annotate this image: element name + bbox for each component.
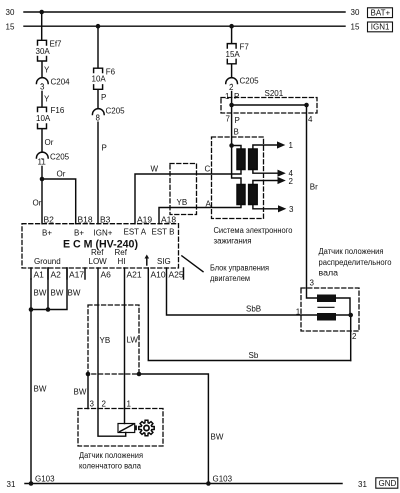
callout leader to ECM <box>182 256 203 272</box>
crank pickup coil <box>118 424 135 433</box>
svg-text:F16: F16 <box>51 106 65 115</box>
wire to spark output 1 <box>253 145 277 149</box>
svg-text:P: P <box>102 144 107 153</box>
junction on rail 15 at F7 feed <box>229 24 234 29</box>
cam sensor top element <box>317 295 336 303</box>
svg-text:BW: BW <box>34 289 47 298</box>
wire EST B / YB / A from A18 <box>159 205 241 224</box>
connector C205 pin8 <box>92 109 104 115</box>
svg-text:A6: A6 <box>101 270 112 280</box>
svg-text:Датчик положения: Датчик положения <box>319 247 384 256</box>
connector C205 pin11 <box>36 152 48 158</box>
svg-text:31: 31 <box>358 480 367 489</box>
wire IGN feed down from rail15 <box>97 26 99 68</box>
svg-text:G103: G103 <box>213 475 233 484</box>
svg-text:P: P <box>234 92 239 101</box>
svg-text:Ef7: Ef7 <box>50 40 63 49</box>
coil1 secondary bar <box>249 149 258 170</box>
terminal box BAT+ <box>368 8 393 18</box>
svg-text:2: 2 <box>102 400 107 409</box>
junction S201 pin 4 <box>304 103 309 108</box>
svg-text:W: W <box>151 165 159 174</box>
rail 30 <box>24 11 345 13</box>
svg-text:A21: A21 <box>127 270 142 280</box>
wire Y <box>41 84 43 107</box>
wire B to primary tops <box>232 146 241 150</box>
svg-text:EST A: EST A <box>124 228 147 237</box>
svg-text:C205: C205 <box>240 77 260 86</box>
crank sensor pin1 internal wire <box>124 409 126 424</box>
svg-text:BAT+: BAT+ <box>371 9 391 18</box>
svg-text:3: 3 <box>289 205 294 214</box>
svg-text:BW: BW <box>211 433 224 442</box>
wire P to ECM B3 <box>97 116 99 224</box>
svg-text:30: 30 <box>351 8 360 17</box>
connector C204 pin3 <box>36 78 48 84</box>
svg-text:A19: A19 <box>137 214 152 224</box>
svg-text:A18: A18 <box>161 214 176 224</box>
terminal box IGN1 <box>368 22 393 32</box>
svg-text:C205: C205 <box>50 153 70 162</box>
arrow 2 <box>278 177 286 184</box>
svg-text:3: 3 <box>90 400 95 409</box>
pin row separators bottom <box>31 268 184 279</box>
svg-text:LOW: LOW <box>89 257 108 266</box>
camshaft sensor box <box>301 288 359 331</box>
svg-text:EST B: EST B <box>152 228 175 237</box>
svg-text:двигателем: двигателем <box>210 274 250 283</box>
svg-text:HI: HI <box>118 257 126 266</box>
svg-text:B2: B2 <box>44 214 55 224</box>
junction on rail 15 at F6 feed <box>96 24 101 29</box>
junction Or wire split to B2/B18 <box>40 177 45 182</box>
cam sensor element wires to pin2 <box>336 298 351 361</box>
svg-text:YB: YB <box>177 198 188 207</box>
wire to spark output 2 <box>253 181 278 185</box>
svg-text:LW: LW <box>127 336 139 345</box>
svg-text:15: 15 <box>6 22 15 31</box>
cam sensor core line <box>318 306 334 308</box>
coil2 primary bar <box>237 185 245 205</box>
fuse F7 <box>227 44 236 78</box>
svg-text:2: 2 <box>289 177 294 186</box>
svg-text:7: 7 <box>226 115 231 124</box>
svg-text:1: 1 <box>289 141 294 150</box>
svg-text:4: 4 <box>308 115 313 124</box>
wire SbB from A25 to cam pin1 <box>167 268 318 315</box>
svg-text:Ref: Ref <box>91 248 104 257</box>
svg-text:10A: 10A <box>36 114 51 123</box>
svg-text:B: B <box>234 128 239 137</box>
ground rail G103 <box>25 483 342 485</box>
svg-text:SIG: SIG <box>157 257 171 266</box>
arrow 1 <box>277 141 285 148</box>
fuse Ef7 <box>38 40 47 77</box>
coil1 primary bar <box>237 149 245 170</box>
arrow 4 <box>278 170 286 177</box>
svg-text:GND: GND <box>379 479 397 488</box>
svg-text:B3: B3 <box>100 214 111 224</box>
svg-text:Ref: Ref <box>115 248 128 257</box>
wire BW from A17 <box>31 268 67 310</box>
wire to spark output 3 <box>253 205 278 209</box>
svg-text:BW: BW <box>34 385 47 394</box>
svg-text:1: 1 <box>225 92 230 101</box>
svg-text:A2: A2 <box>51 270 62 280</box>
junction A1/A2 ground merge <box>29 307 34 312</box>
svg-text:8: 8 <box>96 114 101 123</box>
terminal box GND <box>376 478 398 488</box>
svg-text:C205: C205 <box>106 107 126 116</box>
svg-text:3: 3 <box>310 279 315 288</box>
reluctor gear <box>139 420 154 435</box>
svg-text:F7: F7 <box>240 43 250 52</box>
svg-text:11: 11 <box>38 158 47 167</box>
wire to spark output 4 <box>253 170 278 174</box>
svg-text:B+: B+ <box>42 229 52 238</box>
svg-text:Система электронного: Система электронного <box>214 226 294 235</box>
junction on rail 30 at Ef7 feed <box>39 10 44 15</box>
rail 15 <box>24 25 345 27</box>
svg-text:1: 1 <box>296 308 301 317</box>
wire Sb from A10 <box>148 268 350 361</box>
fuse F6 <box>94 68 103 108</box>
svg-text:SbB: SbB <box>246 305 261 314</box>
svg-text:A25: A25 <box>169 270 184 280</box>
junction A2 ground merge <box>46 307 51 312</box>
junction shield to sensor pin 3 <box>86 372 91 377</box>
fuse F16 <box>38 107 47 152</box>
svg-text:Or: Or <box>33 199 42 208</box>
junction G103 left <box>29 481 34 486</box>
svg-text:1: 1 <box>127 400 132 409</box>
svg-text:G103: G103 <box>35 475 55 484</box>
svg-text:2: 2 <box>352 332 357 341</box>
svg-text:C: C <box>205 165 211 174</box>
wire BW A1 trunk to ground <box>30 279 32 484</box>
svg-text:3: 3 <box>40 83 45 92</box>
S201 internal bus <box>232 104 307 106</box>
shield wire BW to crank pin3 <box>87 374 89 409</box>
svg-text:P: P <box>101 93 106 102</box>
svg-text:распределительного: распределительного <box>319 258 393 267</box>
ECM box <box>22 224 179 268</box>
svg-text:Or: Or <box>45 138 54 147</box>
arrow 3 <box>278 205 286 212</box>
wire P/B from S201 pin7 to coil junction <box>231 105 233 146</box>
coil2 secondary bar <box>249 185 258 205</box>
splice S201 box <box>221 98 317 114</box>
terminal boxes <box>368 8 398 488</box>
svg-text:Датчик положения: Датчик положения <box>79 451 143 460</box>
svg-text:коленчатого вала: коленчатого вала <box>79 462 142 471</box>
svg-text:Or: Or <box>57 170 66 179</box>
svg-text:B+: B+ <box>74 229 84 238</box>
crank sensor pin2 internal wire <box>98 409 126 437</box>
svg-text:IGN1: IGN1 <box>371 23 390 32</box>
svg-text:BW: BW <box>51 289 64 298</box>
connector C205 pin2 <box>226 78 238 84</box>
svg-text:A17: A17 <box>69 270 84 280</box>
svg-text:Br: Br <box>310 183 318 192</box>
svg-text:10A: 10A <box>92 75 107 84</box>
svg-text:A10: A10 <box>151 270 166 280</box>
svg-text:15A: 15A <box>226 50 241 59</box>
wire LW from A21 to crank pin1 <box>124 268 126 409</box>
wire P into S201 <box>231 85 233 106</box>
svg-text:Блок управления: Блок управления <box>210 264 269 273</box>
svg-text:Sb: Sb <box>249 351 259 360</box>
svg-text:Y: Y <box>44 95 50 104</box>
junction S201 pin 1/7 <box>229 103 234 108</box>
junction G103 right <box>206 481 211 486</box>
svg-text:Ground: Ground <box>34 257 61 266</box>
svg-text:BW: BW <box>74 388 87 397</box>
svg-text:вала: вала <box>319 269 339 278</box>
svg-text:15: 15 <box>351 22 360 31</box>
wire Or to ECM B2 <box>41 159 43 224</box>
svg-text:30A: 30A <box>36 47 51 56</box>
svg-text:F6: F6 <box>106 68 116 77</box>
shield drain wire to ground <box>139 374 208 484</box>
svg-text:Y: Y <box>44 66 50 75</box>
shield box around YB/LW <box>88 305 139 374</box>
crank pickup magnet nub <box>135 425 137 430</box>
svg-text:P: P <box>235 116 240 125</box>
SIG arrow inside ECM <box>146 258 148 265</box>
svg-text:2: 2 <box>229 83 234 92</box>
svg-text:C204: C204 <box>51 78 71 87</box>
wire YB from A6 to crank pin2 <box>97 268 99 409</box>
ignition module box (Система электронного зажигания) <box>212 137 264 219</box>
svg-text:IGN+: IGN+ <box>94 229 113 238</box>
svg-text:S201: S201 <box>265 89 284 98</box>
svg-text:BW: BW <box>68 289 81 298</box>
wire BW from A2 <box>47 268 49 310</box>
svg-text:A1: A1 <box>34 270 45 280</box>
junction shield drain <box>137 372 142 377</box>
junction camshaft sensor pin 2 <box>348 313 353 318</box>
svg-text:B18: B18 <box>78 214 93 224</box>
cam sensor bottom element <box>317 313 336 321</box>
svg-text:31: 31 <box>7 480 16 489</box>
wire F7 feed down from rail15 <box>231 26 233 43</box>
wire Or branch to B18 <box>42 179 76 224</box>
wire B down to lower primary <box>232 146 241 185</box>
svg-text:YB: YB <box>100 336 111 345</box>
junction node B in ignition module <box>229 143 234 148</box>
svg-text:30: 30 <box>6 8 15 17</box>
svg-text:зажигания: зажигания <box>214 237 252 246</box>
crankshaft sensor box <box>78 409 163 447</box>
svg-text:A: A <box>206 200 212 209</box>
wire EST A / W / C from A19 <box>135 170 241 224</box>
wire Br from S201 pin4 to camshaft sensor <box>307 105 318 298</box>
wire BAT feed down from rail30 <box>41 12 43 40</box>
pin digit underlays <box>37 84 235 165</box>
shielded connector box on EST wires <box>170 164 197 215</box>
